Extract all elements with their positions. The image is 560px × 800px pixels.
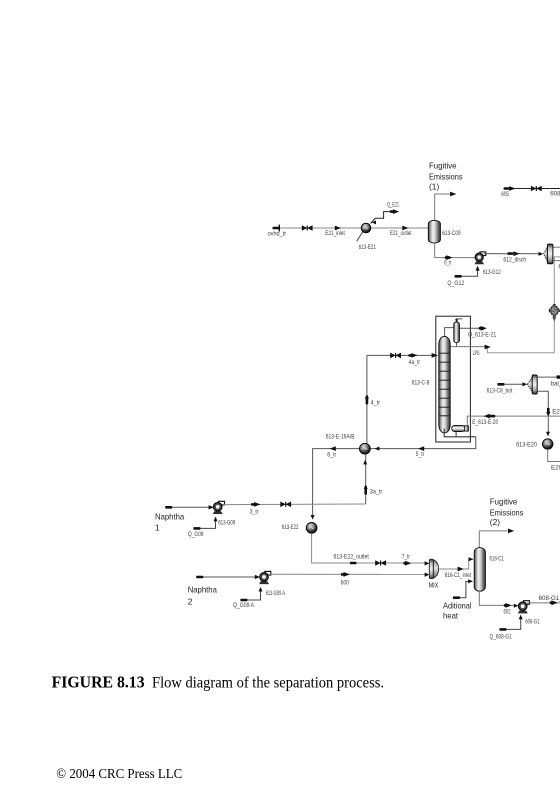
- svg-text:E_613-E-20: E_613-E-20: [472, 419, 498, 426]
- svg-text:Fugitive: Fugitive: [429, 161, 457, 171]
- svg-text:608-G1_outlet: 608-G1_outlet: [539, 595, 560, 602]
- svg-text:7_tr: 7_tr: [402, 554, 410, 561]
- svg-text:608-G1: 608-G1: [525, 619, 540, 626]
- svg-text:MIX: MIX: [429, 580, 439, 589]
- svg-text:Fugitive: Fugitive: [490, 496, 518, 506]
- svg-text:613-E22: 613-E22: [282, 524, 299, 531]
- svg-text:613-E20: 613-E20: [516, 442, 537, 449]
- svg-text:4a_tr: 4a_tr: [409, 359, 420, 366]
- svg-text:Emissions: Emissions: [429, 172, 463, 182]
- svg-text:Emissions: Emissions: [490, 507, 524, 517]
- svg-text:E21_inlet: E21_inlet: [325, 230, 345, 237]
- svg-text:Aditional: Aditional: [443, 600, 472, 610]
- svg-text:ovhd_tr: ovhd_tr: [268, 230, 287, 237]
- svg-text:Q_G09: Q_G09: [188, 531, 204, 538]
- svg-text:4_tr: 4_tr: [371, 399, 381, 406]
- svg-text:613-C09: 613-C09: [442, 230, 461, 237]
- svg-text:600: 600: [341, 580, 349, 587]
- svg-text:3a_tr: 3a_tr: [370, 488, 382, 495]
- svg-text:613-E21: 613-E21: [359, 244, 377, 251]
- svg-text:Q_G12: Q_G12: [447, 280, 464, 287]
- svg-text:LPG: LPG: [473, 350, 480, 357]
- svg-text:616-C1: 616-C1: [490, 555, 505, 562]
- svg-text:(1): (1): [429, 182, 439, 192]
- svg-text:1: 1: [155, 523, 160, 533]
- svg-text:2: 2: [188, 596, 193, 606]
- svg-text:613-C-8: 613-C-8: [412, 379, 430, 386]
- svg-text:bal_ga: bal_ga: [551, 381, 560, 388]
- svg-text:602: 602: [504, 609, 511, 616]
- svg-text:Q_613-E-21: Q_613-E-21: [468, 332, 497, 339]
- svg-text:6_tr: 6_tr: [327, 452, 336, 459]
- svg-text:Naphtha: Naphtha: [188, 584, 218, 594]
- svg-text:E21_outlet: E21_outlet: [390, 230, 412, 237]
- svg-text:613-E-19A/B: 613-E-19A/B: [326, 434, 355, 441]
- svg-text:heat: heat: [443, 611, 459, 621]
- svg-text:FIGURE 8.13Flow diagram of the: FIGURE 8.13Flow diagram of the separatio…: [52, 672, 384, 691]
- svg-text:613-G09 A: 613-G09 A: [266, 590, 286, 597]
- svg-text:613-C8_bot: 613-C8_bot: [487, 388, 513, 395]
- svg-text:613-G09: 613-G09: [218, 519, 235, 526]
- svg-text:3_tr: 3_tr: [250, 508, 259, 515]
- svg-text:Q_608-G1: Q_608-G1: [490, 634, 513, 641]
- svg-text:Q_E21: Q_E21: [387, 201, 399, 208]
- svg-text:(2): (2): [490, 517, 500, 527]
- svg-text:613-G12: 613-G12: [483, 269, 501, 276]
- svg-text:613-E22_outlet: 613-E22_outlet: [334, 554, 370, 561]
- svg-text:616-C1_inlet: 616-C1_inlet: [445, 572, 472, 579]
- svg-text:© 2004 CRC Press LLC: © 2004 CRC Press LLC: [56, 767, 182, 782]
- svg-text:S: S: [552, 307, 558, 316]
- svg-text:6_tr: 6_tr: [444, 259, 451, 266]
- svg-text:E20_in: E20_in: [552, 409, 560, 416]
- svg-text:605: 605: [501, 191, 509, 198]
- svg-text:608-G1: 608-G1: [550, 191, 560, 198]
- svg-text:E20_ou: E20_ou: [551, 464, 560, 471]
- svg-text:5_tr: 5_tr: [416, 451, 425, 458]
- svg-text:Q_G09 A: Q_G09 A: [233, 602, 255, 609]
- svg-text:Naphtha: Naphtha: [155, 511, 185, 521]
- svg-text:612_disch: 612_disch: [503, 257, 526, 264]
